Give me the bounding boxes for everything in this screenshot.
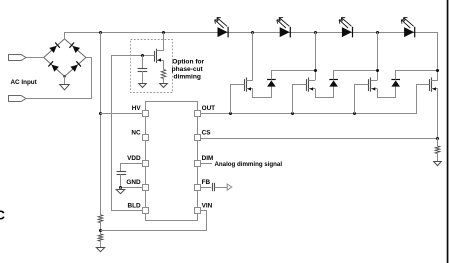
- wire VDD to C2: [121, 164, 143, 172]
- node divider mid: [99, 229, 102, 232]
- wire CS bus: [201, 138, 438, 140]
- bridge diode D1 (L to T): [49, 46, 56, 53]
- transistor Q4 gate bar: [368, 79, 370, 91]
- wire: [142, 71, 144, 83]
- svg-text:AC Input: AC Input: [11, 79, 38, 86]
- wire source Q5 to CS: [437, 89, 439, 138]
- transistor Q5 drain stub: [431, 80, 438, 82]
- pin NC: [143, 135, 149, 141]
- diode D6 (bypass): [329, 80, 338, 86]
- node on rectified bus: [251, 31, 254, 34]
- wire rectified bus (top): [65, 33, 438, 81]
- svg-text:Analog dimming signal: Analog dimming signal: [215, 161, 283, 168]
- pin BLD: [143, 208, 149, 214]
- wire: [64, 32, 66, 39]
- LED: [280, 27, 290, 37]
- capacitor C2 (VDD): [117, 171, 127, 173]
- transistor Q5 source arrow: [432, 87, 436, 90]
- node gate tap: [291, 112, 294, 115]
- input terminal J2 (AC neutral): [9, 96, 27, 102]
- wire source Q4 to bypass diode: [378, 87, 396, 98]
- LED: [404, 27, 414, 37]
- wire DIM stub: [201, 163, 212, 165]
- wire HV rail: [100, 32, 102, 215]
- svg-text:FB: FB: [202, 179, 211, 186]
- wire gate Q2: [231, 85, 245, 114]
- transistor Q4 drain stub: [371, 80, 378, 82]
- wire GND pin: [121, 187, 142, 189]
- transistor Q4 channel bar: [370, 77, 372, 91]
- capacitor C3 (FB): [212, 183, 214, 191]
- svg-text:GND: GND: [126, 179, 141, 186]
- transistor Q4 source arrow: [372, 87, 376, 90]
- node on rectified bus: [314, 31, 317, 34]
- node GND junction: [119, 186, 122, 189]
- transistor Q2 source arrow: [247, 87, 251, 90]
- transistor Q3 drain stub: [309, 80, 316, 82]
- wire: [100, 223, 102, 234]
- pin FB: [195, 185, 201, 191]
- wire FB stub: [201, 187, 212, 189]
- wire HV pin to rail: [100, 113, 142, 115]
- resistor R2 (divider bottom): [98, 234, 103, 241]
- wire Q1 gate to BLD: [112, 56, 155, 211]
- wire gate Q3: [293, 85, 307, 114]
- transistor Q2 drain wire: [252, 32, 254, 80]
- wire VIN loop: [101, 211, 207, 231]
- transistor Q2 drain stub: [246, 80, 253, 82]
- bridge diode D3 (B to L): [51, 65, 58, 72]
- transistor Q5 channel bar: [431, 77, 433, 91]
- wire gate Q5: [417, 85, 430, 114]
- wire source Q2 to bypass diode: [253, 87, 272, 98]
- wire gate Q4: [355, 85, 369, 114]
- wire: [163, 79, 165, 84]
- resistor R1 (divider top): [98, 215, 103, 223]
- node diode feed: [436, 69, 439, 72]
- svg-text:C: C: [0, 208, 5, 223]
- node on rectified bus: [376, 31, 379, 34]
- input terminal J1 (AC line): [9, 55, 27, 61]
- transistor Q3 gate bar: [306, 79, 308, 91]
- ground (C1): [139, 84, 147, 88]
- svg-text:Option for: Option for: [172, 59, 204, 66]
- resistor R3 (bleeder): [161, 70, 166, 79]
- pin VDD: [143, 161, 149, 167]
- ground (bridge return): [60, 85, 70, 90]
- transistor Q5 source stub: [431, 88, 438, 90]
- op IC U1 body: [146, 102, 198, 221]
- pin GND: [143, 185, 149, 191]
- diode D7 (bypass): [391, 80, 400, 86]
- bridge diode D2 (R to T): [72, 46, 80, 53]
- bridge diode D4 (B to R): [70, 65, 77, 72]
- svg-text:VIN: VIN: [202, 203, 213, 210]
- node CS junction: [436, 137, 439, 140]
- svg-text:BLD: BLD: [127, 203, 141, 210]
- ground (divider): [96, 248, 104, 252]
- wire diode to next tap: [334, 71, 378, 80]
- pin CS: [195, 135, 201, 141]
- pin OUT: [195, 111, 201, 117]
- bridge rectifier BR1 outline: [44, 39, 86, 77]
- dashed option box: [131, 40, 173, 93]
- wire OUT gate bus: [201, 113, 417, 115]
- pin DIM: [195, 161, 201, 167]
- svg-text:dimming: dimming: [173, 74, 200, 81]
- wire diode to next tap: [272, 71, 316, 80]
- wire: [64, 77, 66, 85]
- transistor Q1 channel bar: [156, 49, 158, 63]
- svg-text:CS: CS: [202, 130, 212, 137]
- wire: [26, 58, 92, 99]
- wire diode to next tap: [396, 71, 438, 80]
- resistor R4 (sense): [435, 146, 440, 154]
- wire: [437, 138, 439, 146]
- node diode feed: [376, 69, 379, 72]
- svg-text:HV: HV: [132, 105, 142, 112]
- terminal FB signal arrow: [227, 184, 232, 190]
- capacitor C1: [138, 68, 148, 70]
- pin VIN: [195, 208, 201, 214]
- transistor Q2 source stub: [246, 88, 253, 90]
- transistor Q2 channel bar: [246, 77, 248, 91]
- wire: [100, 241, 102, 248]
- svg-text:phase-cut: phase-cut: [172, 66, 204, 73]
- ground (IC GND): [116, 190, 125, 194]
- pin HV: [143, 111, 149, 117]
- LED: [218, 27, 228, 37]
- svg-text:NC: NC: [131, 130, 141, 137]
- transistor Q3 drain wire: [315, 32, 317, 80]
- svg-text:OUT: OUT: [202, 105, 216, 112]
- svg-text:VDD: VDD: [127, 155, 141, 162]
- wire source Q3 to bypass diode: [316, 87, 334, 98]
- wire: [120, 187, 122, 189]
- node gate/cap junction: [141, 54, 144, 57]
- capacitor C1 wire: [142, 55, 144, 68]
- transistor Q1 drain: [157, 33, 164, 51]
- diode D5 (bypass): [267, 80, 276, 86]
- node diode feed: [314, 69, 317, 72]
- transistor Q3 source stub: [309, 88, 316, 90]
- transistor Q1 source arrow: [157, 58, 161, 61]
- ground (bleeder): [160, 84, 168, 88]
- node HV tap: [99, 112, 102, 115]
- transistor Q5 gate bar: [429, 79, 431, 91]
- page border right: [447, 0, 449, 263]
- transistor Q4 source stub: [371, 88, 378, 90]
- node on rectified bus: [99, 31, 102, 34]
- node gate tap: [353, 112, 356, 115]
- node bridge negative / junction: [63, 75, 65, 77]
- transistor Q5 drain wire: [437, 71, 439, 81]
- wire: [26, 57, 44, 59]
- wire: [120, 174, 122, 187]
- wire: [215, 187, 227, 189]
- svg-text:DIM: DIM: [202, 155, 214, 162]
- transistor Q3 channel bar: [308, 77, 310, 91]
- transistor Q1 (bleeder FET) gate bar: [154, 51, 156, 62]
- node on rectified bus: [162, 31, 165, 34]
- transistor Q4 drain wire: [377, 32, 379, 80]
- ground (sense): [434, 162, 442, 166]
- transistor Q1 source: [157, 61, 164, 70]
- wire: [437, 154, 439, 162]
- transistor Q2 gate bar: [244, 79, 246, 91]
- transistor Q3 source arrow: [310, 87, 314, 90]
- LED: [342, 27, 352, 37]
- node gate tap: [229, 112, 232, 115]
